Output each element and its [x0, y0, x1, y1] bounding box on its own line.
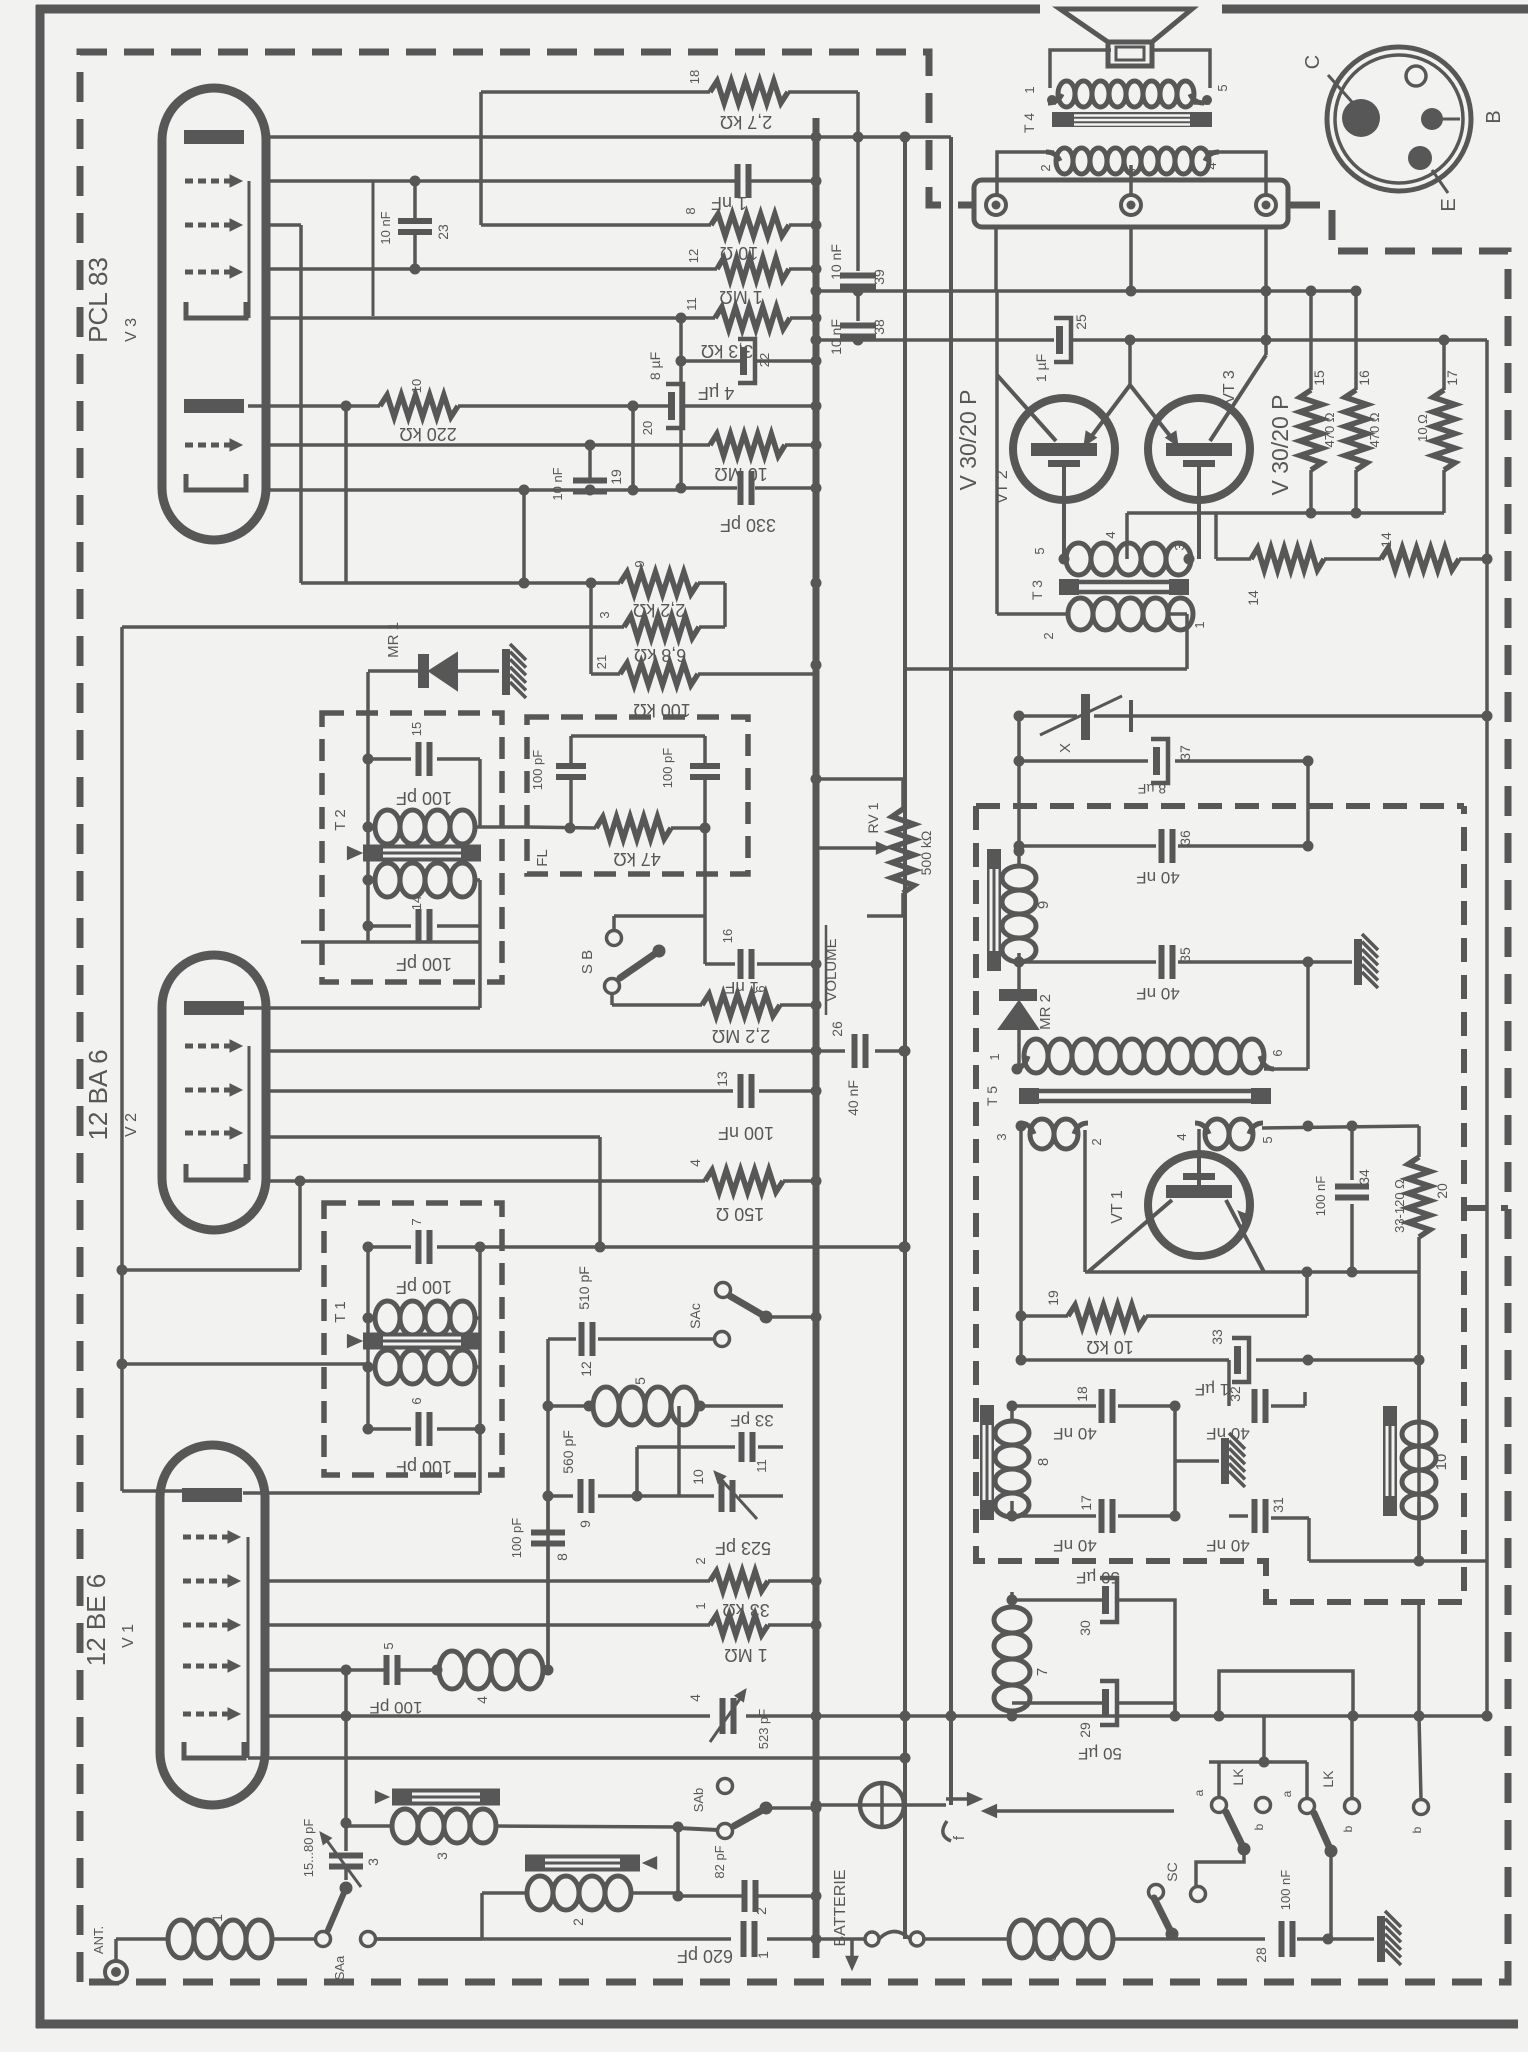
svg-text:C: C	[1302, 55, 1324, 69]
switch SC	[1191, 1887, 1206, 1902]
capacitor 23 10nF	[413, 181, 417, 221]
svg-text:SAa: SAa	[332, 1955, 347, 1980]
svg-text:100 pF: 100 pF	[509, 1518, 524, 1559]
svg-text:2: 2	[1041, 632, 1056, 639]
svg-text:470 Ω: 470 Ω	[1367, 412, 1382, 447]
svg-text:50 µF: 50 µF	[1076, 1568, 1120, 1587]
svg-text:B: B	[1483, 110, 1505, 123]
capacitor 25 1uF inline on wire 340	[1056, 326, 1063, 354]
transformer T2 dashed box	[322, 713, 502, 982]
transistor VT3	[1148, 398, 1250, 500]
capacitor 19 10nF	[588, 445, 592, 481]
svg-text:33: 33	[1209, 1329, 1225, 1345]
capacitor 29 50uF	[1102, 1689, 1109, 1717]
wire V2 anode to T2	[243, 1006, 480, 1010]
svg-text:47 kΩ: 47 kΩ	[613, 849, 660, 869]
svg-text:10: 10	[409, 379, 424, 393]
svg-text:4: 4	[1103, 531, 1118, 538]
svg-text:14: 14	[409, 896, 424, 910]
svg-text:523 pF: 523 pF	[756, 1709, 771, 1750]
wire V2 grid1 row	[266, 1049, 816, 1053]
svg-text:28: 28	[1253, 1947, 1269, 1963]
svg-text:10 kΩ: 10 kΩ	[1086, 1337, 1133, 1357]
svg-text:1 µF: 1 µF	[1195, 1380, 1229, 1399]
svg-text:14: 14	[1378, 532, 1394, 548]
svg-text:1 MΩ: 1 MΩ	[724, 1645, 767, 1665]
svg-text:6: 6	[409, 1397, 424, 1404]
svg-text:6: 6	[1270, 1049, 1285, 1056]
coil 3 with core	[392, 1789, 500, 1806]
svg-text:40 nF: 40 nF	[845, 1080, 861, 1116]
transformer T4 box top	[1050, 50, 1111, 88]
terminal strip	[974, 180, 1288, 227]
resistor 10 220k	[380, 395, 458, 417]
svg-text:ANT.: ANT.	[91, 1926, 106, 1954]
battery fuse	[865, 1932, 879, 1946]
svg-text:82 pF: 82 pF	[712, 1845, 727, 1878]
svg-text:2: 2	[1089, 1138, 1104, 1145]
tube V1 12BE6	[160, 1445, 265, 1805]
trimmer capacitor 4 523pF	[720, 1698, 726, 1734]
svg-text:4: 4	[687, 1159, 703, 1167]
svg-text:500 kΩ: 500 kΩ	[918, 831, 934, 876]
capacitor 28 100nF	[1279, 1921, 1285, 1957]
T2 left vertical wire	[366, 672, 370, 942]
center bus wire 951	[949, 137, 953, 1805]
wires below terminals	[994, 227, 998, 291]
capacitor 14 100pF	[368, 924, 411, 928]
svg-text:10: 10	[1433, 1454, 1450, 1471]
LK switch 1	[1217, 1762, 1221, 1797]
wire V2 grid3 row	[266, 1135, 600, 1139]
wire V3 anode row	[266, 135, 951, 139]
FL 100pF cap left	[571, 734, 705, 738]
svg-text:10 nF: 10 nF	[828, 244, 844, 280]
capacitor 2 82pF	[742, 1880, 748, 1912]
svg-text:29: 29	[1077, 1722, 1093, 1738]
wire bottom T2	[301, 940, 480, 944]
svg-text:LK: LK	[1230, 1768, 1246, 1786]
right vertical from wire340	[1485, 340, 1489, 559]
V2 cathode branch to left feed	[122, 1268, 300, 1272]
svg-text:11: 11	[754, 1459, 769, 1473]
wire V1 g3 row 1666 + cap 5 100pF + coil 4	[266, 1668, 384, 1672]
svg-text:1: 1	[693, 1602, 708, 1609]
svg-text:2,7 kΩ: 2,7 kΩ	[720, 112, 772, 132]
svg-text:1: 1	[755, 1951, 771, 1959]
coil 9 with core	[987, 849, 1001, 971]
capacitor 8 100pF	[547, 1560, 549, 1670]
svg-text:LK: LK	[1320, 1770, 1336, 1788]
svg-text:2,2 MΩ: 2,2 MΩ	[712, 1026, 770, 1046]
svg-text:40 nF: 40 nF	[1206, 1536, 1249, 1555]
main HT bus wire	[813, 118, 820, 1958]
svg-text:3: 3	[994, 1133, 1009, 1140]
svg-text:8: 8	[683, 207, 698, 214]
capacitor 9 560pF	[548, 1494, 573, 1498]
svg-text:33-120 Ω: 33-120 Ω	[1392, 1179, 1407, 1233]
speaker	[1060, 9, 1192, 42]
svg-text:26: 26	[829, 1021, 845, 1037]
svg-text:10: 10	[690, 1469, 706, 1485]
svg-text:21: 21	[594, 655, 609, 669]
switch SAb	[678, 1828, 718, 1830]
svg-text:12 BA 6: 12 BA 6	[83, 1049, 113, 1140]
svg-text:100 pF: 100 pF	[396, 1457, 452, 1477]
capacitor 36 40nF	[1019, 844, 1156, 848]
svg-text:9: 9	[1035, 901, 1052, 909]
FL 100pF cap right	[703, 736, 707, 766]
svg-text:V 30/20 P: V 30/20 P	[955, 389, 981, 490]
switch SAa	[328, 1888, 346, 1930]
svg-text:523 pF: 523 pF	[715, 1538, 771, 1558]
svg-text:V 30/20 P: V 30/20 P	[1267, 394, 1293, 495]
svg-text:12: 12	[686, 249, 701, 263]
capacitor 330pF	[682, 486, 737, 490]
terminal strip right stub	[1288, 203, 1312, 207]
capacitor 39 10nF	[856, 92, 860, 271]
wire to V2 screen bus	[522, 490, 526, 583]
svg-text:100 nF: 100 nF	[1278, 1870, 1293, 1911]
svg-text:40 nF: 40 nF	[1136, 984, 1179, 1003]
svg-text:15: 15	[409, 722, 424, 736]
right vertical 1487	[1485, 559, 1489, 1716]
svg-text:a: a	[1192, 1789, 1206, 1796]
svg-text:8 µF: 8 µF	[1138, 781, 1166, 797]
svg-text:34: 34	[1356, 1169, 1372, 1185]
svg-text:b: b	[1252, 1823, 1266, 1830]
svg-text:8: 8	[1035, 1458, 1052, 1466]
capacitor 35 40nF	[1019, 960, 1156, 964]
outer border frame	[36, 5, 1040, 14]
coil 3	[392, 1809, 418, 1843]
coil 1 antenna	[168, 1920, 194, 1958]
svg-text:X: X	[1057, 743, 1074, 753]
svg-text:VT 1: VT 1	[1109, 1190, 1126, 1224]
svg-text:16: 16	[720, 929, 735, 943]
svg-text:1: 1	[987, 1053, 1002, 1060]
capacitor 38 10nF	[856, 291, 860, 321]
transformer T3	[1066, 543, 1091, 575]
ground mid	[1173, 1406, 1177, 1516]
T1 core	[363, 1333, 481, 1350]
capacitor 18 40nF	[1012, 1404, 1096, 1408]
svg-text:2: 2	[693, 1557, 708, 1564]
svg-text:150 Ω: 150 Ω	[716, 1204, 765, 1224]
T1 vertical wires	[366, 1247, 370, 1429]
wire V2 grid2 row + cap13 100nF	[266, 1089, 733, 1093]
svg-text:15...80 pF: 15...80 pF	[301, 1819, 316, 1878]
crystal X wire right	[1160, 714, 1487, 718]
switch SB	[703, 828, 707, 916]
T1 primary coil	[375, 1301, 400, 1335]
resistor 21 100k	[589, 583, 593, 674]
svg-text:100 nF: 100 nF	[1313, 1176, 1328, 1217]
wire V3 triode cathode row	[266, 316, 715, 320]
svg-text:BATTERIE: BATTERIE	[832, 1869, 849, 1946]
svg-text:620 pF: 620 pF	[677, 1946, 733, 1966]
svg-text:FL: FL	[534, 849, 551, 867]
svg-text:100 pF: 100 pF	[396, 954, 452, 974]
svg-text:5: 5	[381, 1642, 396, 1649]
coil 5	[548, 1404, 591, 1408]
svg-text:15: 15	[1311, 370, 1327, 386]
capacitor 34 100nF	[1350, 1126, 1354, 1180]
trimmer capacitor 3 15..80pF	[329, 1853, 363, 1859]
svg-text:3: 3	[597, 611, 612, 618]
svg-text:4: 4	[1174, 1133, 1189, 1140]
svg-text:16: 16	[1356, 370, 1372, 386]
svg-text:13: 13	[714, 1071, 730, 1087]
svg-text:37: 37	[1177, 745, 1193, 761]
svg-text:5: 5	[1215, 84, 1230, 91]
svg-text:V 3: V 3	[123, 318, 140, 342]
branch to T1 secondary	[122, 1362, 368, 1366]
T2 secondary coil	[375, 863, 400, 897]
svg-text:1 µF: 1 µF	[1033, 354, 1049, 382]
capacitor 7 100pF	[368, 1245, 411, 1249]
svg-text:6: 6	[1043, 1954, 1059, 1962]
svg-text:1: 1	[209, 1914, 225, 1922]
svg-text:100 pF: 100 pF	[660, 748, 675, 789]
svg-text:T 1: T 1	[332, 1301, 349, 1322]
resistor 3 6.8k	[624, 616, 699, 638]
T4 core	[1052, 112, 1212, 127]
svg-text:2: 2	[1038, 164, 1053, 171]
T1 secondary coil	[375, 1350, 400, 1384]
svg-text:22: 22	[757, 353, 772, 367]
T2 core	[363, 845, 481, 862]
svg-text:470 Ω: 470 Ω	[1322, 412, 1337, 447]
vertical SAb feed	[676, 1827, 680, 1896]
T5 secondary left	[1030, 1119, 1054, 1149]
svg-text:30: 30	[1077, 1620, 1093, 1636]
T3 center tap	[1125, 513, 1129, 559]
coil 2 with core	[525, 1855, 640, 1872]
switch f arrows	[904, 1803, 946, 1807]
svg-text:40 nF: 40 nF	[1206, 1424, 1249, 1443]
svg-text:T 5: T 5	[984, 1086, 1000, 1106]
svg-text:19: 19	[1045, 1290, 1061, 1306]
transistor VT2	[1013, 398, 1115, 500]
svg-text:7: 7	[1034, 1668, 1051, 1676]
DIN connector	[1327, 47, 1471, 191]
row 1716 dots	[811, 1711, 822, 1722]
resistor 11 3.3k	[715, 307, 790, 329]
svg-text:4: 4	[474, 1696, 490, 1704]
resistor 15 470ohm	[1309, 292, 1313, 390]
FL resistor 47k	[527, 827, 596, 828]
T4 secondary coil	[1056, 148, 1073, 174]
power dashed box	[976, 803, 1464, 809]
crystal X	[1019, 714, 1077, 718]
capacitor 11 33pF	[637, 1445, 735, 1449]
lever1 to SC	[1196, 1849, 1244, 1886]
transformer T5	[1024, 1039, 1048, 1073]
misc junction dots	[811, 132, 822, 143]
ground battery	[1377, 1916, 1385, 1962]
resistor 12 1Mohm	[717, 258, 789, 280]
capacitor 1 620pF	[376, 1937, 731, 1941]
svg-text:1: 1	[1022, 86, 1037, 93]
svg-text:31: 31	[1270, 1497, 1286, 1513]
svg-text:39: 39	[871, 269, 887, 285]
svg-text:40 nF: 40 nF	[1136, 868, 1179, 887]
svg-text:36: 36	[1177, 830, 1193, 846]
svg-text:23: 23	[435, 224, 451, 240]
svg-text:b: b	[1341, 1825, 1355, 1832]
resistor 19 10k	[1021, 1314, 1068, 1318]
svg-text:5: 5	[632, 1377, 648, 1385]
resistor 9 2.2k	[620, 572, 698, 594]
svg-text:100 pF: 100 pF	[396, 1277, 452, 1297]
svg-text:MR 2: MR 2	[1037, 994, 1054, 1030]
coil 8 with core	[980, 1405, 994, 1520]
svg-text:9: 9	[632, 560, 647, 567]
wire V3 pentode anode row	[248, 404, 380, 408]
svg-text:E: E	[1438, 198, 1460, 211]
resistor 20 33-120ohm	[1417, 1126, 1421, 1157]
capacitor 1nF (V3 grid)	[735, 164, 741, 198]
coil 10 with core	[1383, 1406, 1397, 1516]
svg-text:b: b	[1410, 1826, 1424, 1833]
antenna terminal	[105, 1961, 127, 1983]
svg-text:6: 6	[753, 985, 768, 992]
resistor 1 1M	[266, 1623, 710, 1627]
svg-text:100 nF: 100 nF	[718, 1123, 774, 1143]
svg-text:1 nF: 1 nF	[711, 193, 747, 213]
diode MR1	[368, 669, 418, 673]
svg-text:220 kΩ: 220 kΩ	[399, 424, 457, 444]
FL filter dashed box	[527, 717, 748, 874]
svg-text:3: 3	[1124, 168, 1139, 175]
coil 7	[994, 1607, 1030, 1633]
capacitor 15 100pF	[368, 757, 411, 761]
resistor 6 2.2M	[612, 1003, 702, 1007]
resistor 18 2.7k	[481, 90, 710, 94]
svg-text:3: 3	[434, 1852, 450, 1860]
tube V2 12BA6	[162, 955, 266, 1230]
capacitor 6 100pF	[368, 1427, 411, 1431]
wire V3 grid rows	[266, 179, 737, 183]
svg-text:17: 17	[1444, 370, 1460, 386]
capacitor 26 40nF	[816, 1049, 845, 1053]
svg-text:17: 17	[1078, 1495, 1094, 1511]
T4 primary coil	[1058, 81, 1075, 107]
svg-text:12: 12	[578, 1361, 594, 1377]
wire row 1360	[1021, 1358, 1229, 1362]
resistor 4 150ohm	[266, 1179, 705, 1183]
capacitor 12 510pF	[548, 1337, 576, 1341]
svg-text:2: 2	[753, 1907, 769, 1915]
svg-text:330 pF: 330 pF	[720, 515, 776, 535]
emitter wire row 1272	[1264, 1270, 1419, 1274]
svg-text:9: 9	[577, 1520, 593, 1528]
svg-text:25: 25	[1073, 314, 1089, 330]
wire row 340	[814, 338, 1054, 342]
capacitor 31 40nF	[1229, 1514, 1248, 1518]
svg-text:4: 4	[687, 1694, 703, 1702]
wire row 1247 AVC	[480, 1245, 904, 1249]
capacitor 33 1uF	[1234, 1346, 1241, 1374]
svg-text:SAc: SAc	[687, 1303, 703, 1329]
capacitor 30 50uF	[1012, 1598, 1102, 1602]
svg-text:T 2: T 2	[332, 809, 349, 830]
wire bus 1019 down	[1017, 716, 1021, 851]
T5 secondary right	[1205, 1119, 1229, 1149]
svg-text:V 1: V 1	[120, 1624, 137, 1648]
svg-text:40 nF: 40 nF	[1053, 1536, 1096, 1555]
svg-text:8 µF: 8 µF	[647, 352, 663, 380]
potentiometer RV1 500k	[816, 777, 903, 781]
wire to LK switches	[1010, 1809, 1174, 1811]
svg-text:8: 8	[554, 1553, 570, 1561]
svg-text:1: 1	[1192, 621, 1207, 628]
svg-text:100 pF: 100 pF	[396, 788, 452, 808]
wire T1 to V1 anode	[478, 1429, 482, 1493]
capacitor 17 40nF	[1012, 1514, 1096, 1518]
svg-text:10 Ω: 10 Ω	[1415, 414, 1430, 442]
capacitor 20 8uF	[668, 392, 675, 420]
svg-text:3: 3	[1172, 543, 1187, 550]
wire LK poles feed	[1209, 1760, 1307, 1764]
svg-text:S B: S B	[579, 950, 596, 974]
svg-text:50 µF: 50 µF	[1078, 1744, 1122, 1763]
svg-text:V 2: V 2	[123, 1113, 140, 1137]
T2 primary coil	[375, 810, 400, 844]
bottom rail 513	[1127, 511, 1444, 515]
resistor 16 470ohm	[1354, 292, 1358, 390]
ground right of cap35	[1308, 960, 1352, 964]
svg-text:5: 5	[1032, 547, 1047, 554]
resistor 8 10ohm	[711, 214, 789, 236]
LK contact far	[1414, 1800, 1429, 1815]
svg-text:12 BE 6: 12 BE 6	[81, 1574, 111, 1667]
svg-text:19: 19	[608, 469, 624, 485]
wire coil5 right down	[677, 1406, 681, 1496]
wire row 583	[301, 581, 620, 585]
svg-text:RV 1: RV 1	[865, 802, 881, 833]
svg-text:33 pF: 33 pF	[730, 1411, 773, 1430]
resistor 14a	[1214, 513, 1218, 559]
svg-text:MR 1: MR 1	[385, 622, 402, 658]
svg-text:100 pF: 100 pF	[370, 1698, 423, 1717]
svg-text:a: a	[1280, 1790, 1294, 1797]
svg-text:PCL 83: PCL 83	[83, 257, 113, 343]
coil 6	[922, 1937, 1007, 1941]
svg-text:38: 38	[871, 319, 887, 335]
wire row 627	[122, 625, 624, 629]
svg-text:VT 3: VT 3	[1221, 370, 1238, 404]
coil 4	[439, 1651, 465, 1689]
svg-text:100 pF: 100 pF	[530, 750, 545, 791]
transformer T1 dashed box	[324, 1203, 502, 1475]
wire row 1716	[266, 1714, 710, 1718]
transistor VT1	[1148, 1154, 1250, 1256]
LK switch 2	[1305, 1762, 1309, 1798]
resistor 14b	[1381, 548, 1459, 570]
wire V1 cathode row 1758	[248, 1756, 905, 1760]
resistor 10Mohm	[710, 434, 785, 456]
wire V3 pentode grid row	[266, 443, 710, 447]
resistor 17 10ohm	[1442, 340, 1446, 390]
svg-text:10 nF: 10 nF	[378, 211, 393, 244]
chassis dashed border	[80, 52, 972, 1982]
svg-text:SC: SC	[1164, 1862, 1180, 1881]
svg-text:20: 20	[640, 421, 655, 435]
center bus wire 905	[903, 137, 907, 1939]
tube V3 PCL83	[162, 88, 266, 540]
